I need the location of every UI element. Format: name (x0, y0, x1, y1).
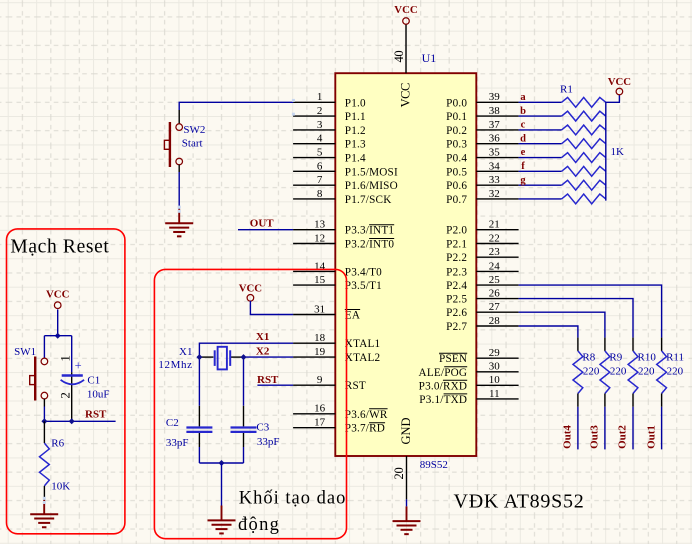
junction crystal left (196, 354, 202, 360)
wire pin1 to SW2 (179, 102, 293, 110)
resistor R1 element 8 (562, 194, 606, 204)
svg-text:C3: C3 (256, 421, 269, 433)
svg-text:Mạch Reset: Mạch Reset (10, 237, 109, 258)
svg-text:P3.7/RD: P3.7/RD (345, 423, 385, 435)
wire RST rail (44, 420, 115, 422)
svg-text:5: 5 (317, 146, 323, 158)
wire P0.6 to R1 (519, 184, 562, 186)
svg-text:27: 27 (489, 301, 501, 313)
svg-text:R9: R9 (609, 352, 622, 364)
pin 7 P1.6/MISO (left) (293, 174, 398, 192)
svg-text:động: động (238, 515, 280, 535)
svg-text:17: 17 (314, 417, 326, 429)
svg-text:P3.4/T0: P3.4/T0 (345, 266, 382, 278)
svg-text:Out3: Out3 (589, 425, 601, 449)
svg-text:P1.3: P1.3 (345, 139, 366, 151)
wire SW2 to ground (178, 172, 180, 209)
svg-text:28: 28 (489, 315, 501, 327)
wire VCC to pin 31 EA (250, 301, 293, 315)
pin 17 P3.7/RD (left) (293, 417, 385, 435)
pin 33 P0.6 (right) (446, 174, 518, 192)
svg-text:Out1: Out1 (645, 425, 657, 449)
svg-text:Khối tạo dao: Khối tạo dao (239, 488, 347, 508)
pin 38 P0.1 (right) (446, 105, 518, 123)
wire R9 to Out3 (604, 407, 606, 450)
pin 31 EA (left) (293, 303, 360, 321)
svg-text:U1: U1 (422, 51, 437, 65)
svg-text:P1.1: P1.1 (345, 111, 366, 123)
pin 8 P1.7/SCK (left) (293, 188, 391, 206)
svg-text:GND: GND (399, 417, 413, 444)
resistor R9 220 (600, 338, 627, 407)
svg-text:3: 3 (317, 119, 323, 131)
svg-text:P3.2/INT0: P3.2/INT0 (345, 239, 395, 251)
pin 26 P2.5 (right) (446, 288, 518, 306)
resistor R1 element 7 (562, 180, 606, 190)
svg-text:d: d (520, 133, 526, 144)
wire P2 pin to R10 (519, 299, 633, 338)
svg-text:a: a (520, 92, 526, 103)
svg-text:RST: RST (257, 374, 279, 386)
pin 28 P2.7 (right) (446, 315, 518, 333)
svg-text:P2.7: P2.7 (446, 321, 467, 333)
svg-text:37: 37 (489, 119, 501, 131)
pin 4 P1.3 (left) (293, 133, 366, 151)
pin 3 P1.2 (left) (293, 119, 366, 137)
svg-text:R11: R11 (666, 352, 684, 364)
junction crystal right (241, 354, 247, 360)
pin 14 P3.4/T0 (left) (293, 260, 382, 278)
wire RST to pin 9 (257, 384, 293, 386)
svg-text:RST: RST (345, 380, 366, 392)
pin 34 P0.5 (right) (446, 160, 518, 178)
svg-text:VCC: VCC (46, 288, 69, 300)
pin 13 P3.3/INT1 (left) (293, 219, 394, 237)
svg-text:P3.5/T1: P3.5/T1 (345, 280, 382, 292)
power symbol VCC (oscillator) (239, 283, 262, 302)
svg-text:40: 40 (392, 51, 406, 63)
resistor R1 element 2 (562, 111, 606, 121)
pin 16 P3.6/WR (left) (293, 403, 388, 421)
resistor R1 element 6 (562, 166, 606, 176)
wire P0.1 to R1 (519, 115, 562, 117)
resistor R1 element 3 (562, 125, 606, 135)
svg-text:4: 4 (317, 133, 323, 145)
svg-text:24: 24 (489, 260, 501, 272)
junction oscillator rail (219, 460, 225, 466)
wire XTAL2 (244, 357, 294, 406)
IC U1 AT89S52 body (335, 73, 476, 456)
svg-text:16: 16 (314, 403, 326, 415)
svg-text:R10: R10 (638, 352, 657, 364)
pin 21 P2.0 (right) (446, 219, 518, 237)
svg-text:15: 15 (314, 274, 326, 286)
svg-text:X1: X1 (179, 346, 192, 358)
svg-text:b: b (520, 106, 526, 117)
svg-text:X1: X1 (256, 331, 269, 343)
svg-text:R1: R1 (560, 84, 573, 96)
title: Khoi tao dao dong (238, 488, 346, 534)
svg-text:P2.5: P2.5 (446, 294, 467, 306)
wire SW1 to RST rail (43, 399, 45, 422)
svg-text:P1.5/MOSI: P1.5/MOSI (345, 166, 398, 178)
wire VCC to rail (57, 309, 59, 335)
svg-text:14: 14 (314, 260, 326, 272)
red box: Mach Reset section (7, 229, 125, 534)
svg-text:P2.3: P2.3 (446, 266, 467, 278)
svg-text:34: 34 (489, 160, 501, 172)
svg-text:19: 19 (314, 346, 326, 358)
svg-text:P0.0: P0.0 (446, 97, 467, 109)
svg-text:20: 20 (392, 468, 406, 480)
resistor R1 element 1 (562, 97, 606, 107)
svg-text:g: g (520, 175, 526, 186)
svg-text:VCC: VCC (608, 76, 631, 88)
pin 37 P0.2 (right) (446, 119, 518, 137)
pin 20 GND (bottom) (392, 456, 407, 506)
svg-text:P3.1/TXD: P3.1/TXD (419, 394, 467, 406)
svg-text:VĐK AT89S52: VĐK AT89S52 (454, 491, 585, 513)
pin 11 P3.1/TXD (right) (419, 388, 518, 406)
svg-text:6: 6 (317, 160, 323, 172)
svg-text:P2.4: P2.4 (446, 280, 467, 292)
svg-text:OUT: OUT (250, 217, 274, 229)
svg-text:+: + (75, 359, 82, 373)
svg-text:RST: RST (85, 409, 107, 421)
svg-text:33: 33 (489, 174, 501, 186)
wire P2 pin to R11 (519, 285, 662, 338)
svg-text:220: 220 (583, 366, 600, 378)
ground (R6) (30, 500, 58, 527)
svg-text:C1: C1 (87, 374, 100, 386)
svg-text:12: 12 (314, 232, 325, 244)
pin 6 P1.5/MOSI (left) (293, 160, 398, 178)
svg-text:31: 31 (314, 303, 325, 315)
junction SW1/RST (41, 418, 47, 424)
crystal X1 (199, 347, 243, 370)
pin 18 XTAL1 (left) (293, 332, 380, 350)
wire rail (44, 335, 71, 337)
svg-text:2: 2 (317, 105, 323, 117)
endpoint marker R6 ground (43, 497, 46, 500)
wire P0.4 to R1 (519, 157, 562, 159)
svg-text:P0.2: P0.2 (446, 125, 467, 137)
svg-text:220: 220 (638, 366, 655, 378)
svg-text:33pF: 33pF (166, 437, 189, 449)
pin 9 RST (left) (293, 374, 366, 392)
ground (pin 20) (393, 506, 421, 534)
power symbol VCC (reset box) (46, 288, 69, 308)
wire P2 pin to R8 (519, 326, 578, 338)
svg-text:35: 35 (489, 146, 501, 158)
svg-text:P0.1: P0.1 (446, 111, 467, 123)
pin 23 P2.2 (right) (446, 246, 518, 264)
wire P0.0 to R1 (519, 101, 562, 103)
pin 19 XTAL2 (left) (293, 346, 380, 364)
svg-text:XTAL2: XTAL2 (345, 352, 381, 364)
pin 39 P0.0 (right) (446, 91, 518, 109)
resistor R8 220 (573, 338, 600, 407)
svg-text:P0.6: P0.6 (446, 180, 467, 192)
wire R11 to Out1 (661, 407, 663, 450)
pin 24 P2.3 (right) (446, 260, 518, 278)
wire P0.3 to R1 (519, 143, 562, 145)
svg-text:R8: R8 (582, 352, 595, 364)
wire bottom rail oscillator (199, 462, 243, 464)
svg-text:PSEN: PSEN (439, 353, 467, 365)
svg-text:VCC: VCC (399, 83, 413, 107)
svg-text:21: 21 (489, 219, 500, 231)
wire P0.7 to R1 (519, 198, 562, 200)
pin 5 P1.4 (left) (293, 146, 366, 164)
svg-text:12Mhz: 12Mhz (158, 359, 192, 371)
pin 25 P2.4 (right) (446, 274, 518, 292)
svg-text:e: e (521, 147, 526, 158)
capacitor C1 (58, 336, 85, 422)
svg-text:39: 39 (489, 91, 501, 103)
wire R1 common bus (606, 95, 620, 201)
wire OUT to pin 13 (238, 229, 293, 231)
wire P0.5 to R1 (519, 170, 562, 172)
svg-text:VCC: VCC (394, 4, 417, 16)
svg-text:P1.4: P1.4 (345, 153, 366, 165)
svg-text:P1.7/SCK: P1.7/SCK (345, 194, 392, 206)
pin 15 P3.5/T1 (left) (293, 274, 382, 292)
ground (SW2) (165, 209, 193, 236)
svg-text:P2.1: P2.1 (446, 239, 467, 251)
svg-text:P2.2: P2.2 (446, 252, 467, 264)
svg-text:1K: 1K (611, 146, 625, 158)
svg-text:P1.0: P1.0 (345, 97, 366, 109)
pin 35 P0.4 (right) (446, 146, 518, 164)
resistor R10 220 (628, 338, 656, 407)
ground (oscillator) (208, 506, 236, 534)
svg-text:18: 18 (314, 332, 326, 344)
svg-text:8: 8 (317, 188, 323, 200)
svg-text:c: c (521, 120, 526, 131)
svg-text:Out4: Out4 (562, 425, 574, 449)
resistor R1 element 5 (562, 153, 606, 163)
resistor R11 220 (657, 338, 684, 407)
svg-text:P0.4: P0.4 (446, 153, 467, 165)
pin 32 P0.7 (right) (446, 188, 518, 206)
wire P2 pin to R9 (519, 312, 605, 337)
svg-text:1: 1 (58, 355, 73, 362)
pin 22 P2.1 (right) (446, 232, 518, 250)
svg-text:f: f (521, 161, 525, 172)
wire rail to ground (221, 463, 223, 506)
svg-text:X2: X2 (256, 346, 270, 358)
svg-text:ALE/POG: ALE/POG (419, 367, 468, 379)
svg-text:P2.6: P2.6 (446, 307, 467, 319)
svg-text:22: 22 (489, 232, 500, 244)
svg-text:SW2: SW2 (183, 124, 205, 136)
svg-text:10uF: 10uF (87, 388, 110, 400)
svg-text:9: 9 (317, 374, 323, 386)
svg-text:36: 36 (489, 133, 501, 145)
pin 29 PSEN (right) (439, 347, 519, 365)
svg-text:P3.6/WR: P3.6/WR (345, 409, 388, 421)
switch SW2 (164, 110, 205, 172)
endpoint marker pin2 (292, 113, 295, 116)
svg-text:P1.2: P1.2 (345, 125, 366, 137)
pin 2 P1.1 (left) (293, 105, 366, 123)
junction C1/RST (69, 418, 75, 424)
svg-text:Start: Start (182, 138, 203, 150)
svg-text:C2: C2 (166, 417, 179, 429)
svg-text:220: 220 (610, 366, 627, 378)
power symbol VCC (R1) (608, 76, 631, 95)
svg-text:26: 26 (489, 288, 501, 300)
svg-text:XTAL1: XTAL1 (345, 338, 381, 350)
switch SW1 (14, 346, 48, 401)
svg-text:10: 10 (489, 374, 501, 386)
svg-text:220: 220 (667, 366, 684, 378)
svg-text:R6: R6 (51, 438, 64, 450)
wire R8 to Out4 (577, 407, 579, 450)
svg-text:2: 2 (58, 392, 73, 399)
svg-text:P3.0/RXD: P3.0/RXD (419, 380, 468, 392)
svg-text:1: 1 (317, 91, 323, 103)
svg-text:VCC: VCC (239, 283, 262, 295)
svg-text:23: 23 (489, 246, 501, 258)
capacitor C3 (231, 406, 257, 463)
svg-text:38: 38 (489, 105, 501, 117)
endpoint marker SW2 ground (178, 206, 181, 209)
svg-text:25: 25 (489, 274, 501, 286)
wire R10 to Out2 (632, 407, 634, 450)
svg-text:7: 7 (317, 174, 323, 186)
red box: oscillator section (154, 269, 346, 538)
capacitor C2 (186, 406, 212, 463)
junction VCC rail (55, 333, 61, 339)
svg-text:P3.3/INT1: P3.3/INT1 (345, 225, 394, 237)
svg-text:P0.3: P0.3 (446, 139, 467, 151)
wire rail to SW1 (43, 336, 45, 359)
resistor R6 (40, 421, 50, 500)
pin 30 ALE/POG (right) (419, 361, 519, 379)
svg-text:89S52: 89S52 (420, 459, 448, 471)
wire P0.2 to R1 (519, 129, 562, 131)
wire XTAL1 (199, 343, 293, 406)
svg-text:Out2: Out2 (617, 425, 629, 449)
svg-text:13: 13 (314, 219, 326, 231)
svg-text:P0.5: P0.5 (446, 166, 467, 178)
svg-text:P0.7: P0.7 (446, 194, 467, 206)
svg-text:30: 30 (489, 361, 501, 373)
svg-text:P2.0: P2.0 (446, 225, 467, 237)
pin 40 VCC (top) (392, 24, 406, 73)
svg-text:32: 32 (489, 188, 500, 200)
svg-text:29: 29 (489, 347, 501, 359)
endpoint marker pin1 (292, 99, 295, 102)
svg-text:11: 11 (489, 388, 500, 400)
pin 1 P1.0 (left) (293, 91, 366, 109)
pin 36 P0.3 (right) (446, 133, 518, 151)
svg-text:10K: 10K (51, 480, 70, 492)
pin 12 P3.2/INT0 (left) (293, 232, 394, 250)
pin 10 P3.0/RXD (right) (419, 374, 519, 392)
power symbol VCC (top, pin 40) (394, 4, 417, 24)
svg-text:33pF: 33pF (257, 436, 280, 448)
pin 27 P2.6 (right) (446, 301, 518, 319)
svg-text:P1.6/MISO: P1.6/MISO (345, 180, 398, 192)
svg-text:SW1: SW1 (14, 346, 36, 358)
resistor R1 element 4 (562, 139, 606, 149)
